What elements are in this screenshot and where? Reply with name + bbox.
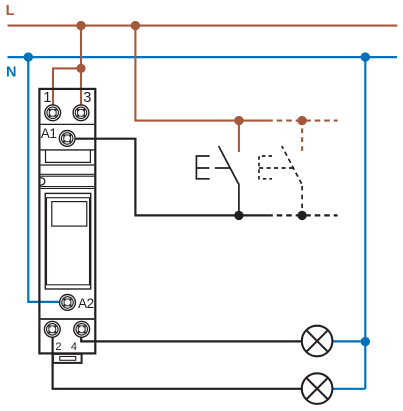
svg-text:N: N	[6, 65, 16, 81]
svg-text:2: 2	[55, 341, 61, 353]
svg-text:A2: A2	[78, 296, 94, 311]
svg-text:A1: A1	[41, 126, 57, 141]
svg-text:3: 3	[83, 90, 91, 106]
svg-text:L: L	[6, 3, 15, 19]
svg-text:4: 4	[71, 341, 77, 353]
svg-text:1: 1	[43, 90, 51, 106]
